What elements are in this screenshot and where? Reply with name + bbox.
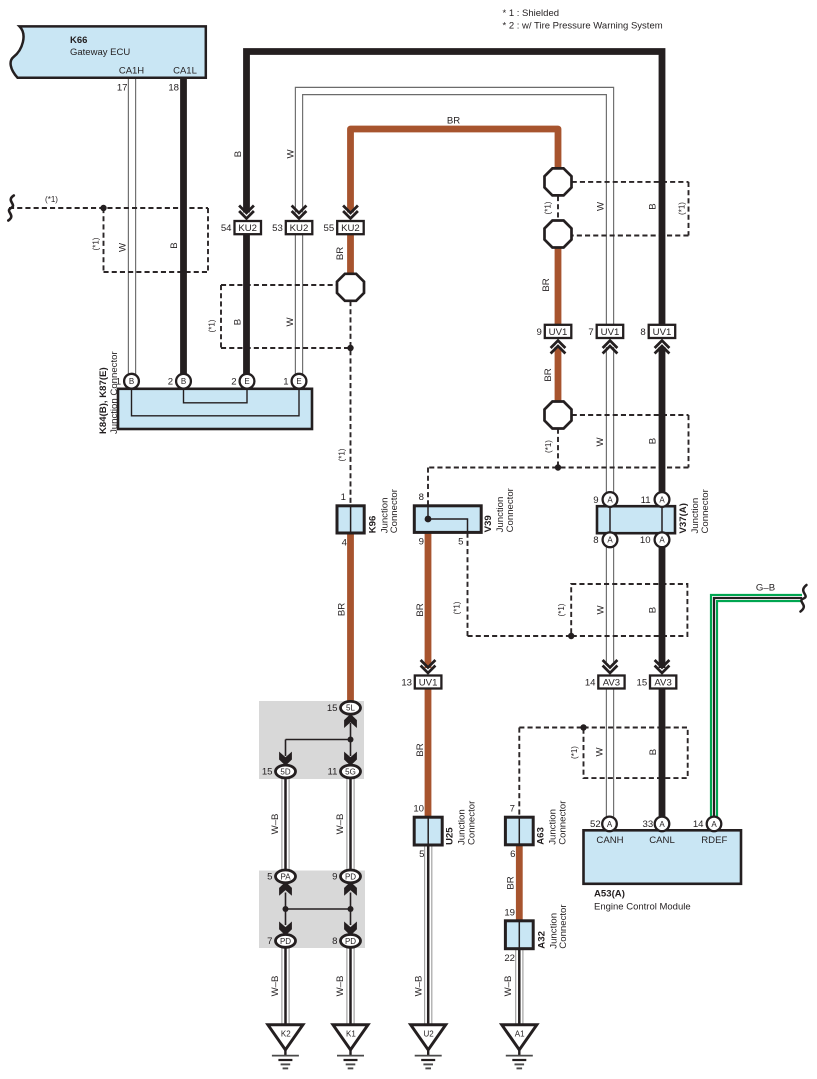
svg-text:11: 11	[328, 767, 338, 778]
wire BR (UV1 13 to U25 pin 10)	[425, 689, 432, 818]
svg-text:K66: K66	[70, 35, 87, 46]
connector U25 junction connector	[414, 817, 442, 845]
svg-text:2: 2	[231, 376, 236, 387]
svg-text:AV3: AV3	[654, 678, 671, 689]
svg-text:Connector: Connector	[505, 487, 516, 532]
svg-text:G–B: G–B	[756, 583, 775, 594]
arrow into AV3 14	[603, 660, 618, 673]
pin 10 A of V37	[655, 532, 670, 547]
pin 2 E of K84	[240, 374, 255, 389]
svg-text:KU2: KU2	[341, 223, 360, 234]
svg-text:PD: PD	[345, 937, 356, 946]
node 5G	[341, 765, 361, 778]
shield dashed box 3 right of octagons	[572, 181, 689, 183]
shield dashed box 1 around W/B to K84	[103, 208, 105, 272]
svg-text:U2: U2	[423, 1030, 434, 1039]
svg-text:W: W	[118, 242, 129, 252]
svg-text:BR: BR	[541, 278, 552, 291]
svg-text:CA1L: CA1L	[173, 66, 197, 77]
arrow into 5G	[345, 753, 356, 765]
svg-text:5G: 5G	[345, 767, 356, 776]
svg-text:(*1): (*1)	[678, 202, 687, 215]
wire W CA1H (K66 17 to K84 1B)	[128, 78, 136, 374]
svg-text:B: B	[181, 377, 186, 386]
wire W (UV1 7 to V37 pin 9)	[606, 347, 614, 492]
svg-text:19: 19	[504, 907, 515, 918]
svg-text:PD: PD	[280, 937, 291, 946]
svg-text:14: 14	[585, 678, 596, 689]
shaded option block 2 (PA/PD)	[259, 871, 365, 949]
wire BR (A63 pin 6 to A32 pin 19)	[516, 845, 523, 921]
svg-text:Connector: Connector	[558, 904, 569, 949]
svg-text:A: A	[659, 536, 665, 545]
svg-text:8: 8	[593, 535, 598, 546]
connector KU2 54	[235, 221, 262, 234]
svg-text:Connector: Connector	[700, 488, 711, 533]
connector V37(A) junction connector	[597, 506, 675, 533]
svg-text:33: 33	[643, 819, 654, 830]
svg-text:5: 5	[419, 849, 424, 860]
svg-text:V39: V39	[483, 515, 494, 532]
svg-text:8: 8	[640, 327, 645, 338]
junction dot block 2 right	[348, 906, 354, 912]
svg-text:B: B	[169, 242, 180, 248]
svg-text:(*1): (*1)	[544, 440, 553, 453]
svg-text:UV1: UV1	[549, 327, 568, 338]
svg-text:54: 54	[221, 223, 232, 234]
node 5L	[341, 701, 361, 714]
svg-text:UV1: UV1	[601, 327, 620, 338]
svg-text:6: 6	[510, 849, 515, 860]
K66 Gateway ECU box	[11, 26, 206, 77]
svg-text:K84(B), K87(E): K84(B), K87(E)	[98, 367, 109, 434]
arrow into 5L	[345, 715, 356, 727]
svg-text:BR: BR	[336, 603, 347, 616]
wire B (KU2 54 to K84 2E)	[243, 234, 250, 374]
svg-text:(*1): (*1)	[557, 603, 566, 616]
arrow into AV3 15	[655, 660, 670, 673]
svg-text:A63: A63	[536, 827, 547, 845]
shield dashed link between octagons S2-S3	[557, 196, 559, 220]
svg-text:PA: PA	[280, 872, 291, 881]
svg-text:B: B	[233, 319, 244, 325]
junction dot on shield drain	[100, 205, 106, 211]
svg-text:(*1): (*1)	[544, 201, 553, 214]
svg-text:K2: K2	[281, 1030, 291, 1039]
A53(A) Engine Control Module box	[584, 830, 742, 884]
wire B (AV3 15 to A53 pin 33 CANL)	[659, 689, 666, 817]
octagon shield S4	[545, 402, 572, 429]
svg-text:17: 17	[117, 82, 128, 93]
pin 33 A of A53	[655, 817, 670, 832]
svg-text:15: 15	[637, 678, 648, 689]
svg-text:UV1: UV1	[653, 327, 672, 338]
connector UV1 8	[649, 325, 676, 338]
shield dashed link octagon S4 down	[557, 429, 559, 468]
octagon shield S1	[337, 274, 364, 301]
svg-text:22: 22	[504, 953, 515, 964]
svg-text:RDEF: RDEF	[701, 835, 727, 846]
shaded option block 1 (5L/5D/5G)	[259, 701, 364, 779]
wire W-B (5G to PD 9)	[346, 778, 354, 871]
shield drain dashed to V39 pin 8	[427, 468, 429, 506]
node 5D	[276, 765, 296, 778]
connector K84(B) K87(E) junction connector box	[118, 389, 312, 429]
svg-text:A53(A): A53(A)	[594, 889, 625, 900]
pin 11 A of V37	[655, 492, 670, 507]
arrow into UV1 7	[603, 341, 618, 354]
svg-text:UV1: UV1	[419, 678, 438, 689]
ground K2	[268, 1025, 303, 1069]
connector A63 junction connector	[505, 817, 533, 845]
pin 1 B of K84	[124, 374, 139, 389]
shield dashed link to A63 pin 7	[519, 727, 583, 729]
svg-text:7: 7	[588, 327, 593, 338]
octagon shield S2	[545, 168, 572, 195]
svg-text:AV3: AV3	[603, 678, 620, 689]
arrow into UV1 13	[421, 660, 436, 673]
wire W-B (A32 22 to ground A1)	[515, 949, 523, 1025]
svg-text:15: 15	[262, 767, 273, 778]
svg-text:9: 9	[419, 536, 424, 547]
svg-text:KU2: KU2	[238, 223, 257, 234]
svg-text:BR: BR	[506, 876, 517, 889]
wire BR (octagon S3 to UV1 9)	[555, 247, 562, 326]
svg-text:V37(A): V37(A)	[678, 503, 689, 533]
svg-text:Connector: Connector	[557, 800, 568, 845]
svg-text:(*1): (*1)	[570, 746, 579, 759]
svg-text:A: A	[659, 820, 665, 829]
connector UV1 9	[545, 325, 572, 338]
svg-text:W–B: W–B	[335, 814, 346, 835]
arrow into KU2 55	[343, 206, 358, 219]
svg-text:Connector: Connector	[466, 800, 477, 845]
wire W-B (U25 5 to ground U2)	[424, 845, 432, 1025]
octagon shield S3	[545, 221, 572, 248]
svg-text:52: 52	[590, 819, 601, 830]
svg-text:PD: PD	[345, 872, 356, 881]
svg-text:8: 8	[332, 936, 337, 947]
svg-text:K96: K96	[368, 516, 379, 534]
svg-text:1: 1	[341, 492, 346, 503]
svg-text:A: A	[607, 820, 613, 829]
svg-text:5: 5	[458, 536, 463, 547]
svg-text:5: 5	[267, 872, 272, 883]
svg-text:CANL: CANL	[649, 835, 675, 846]
connector A32 junction connector	[505, 921, 533, 949]
svg-text:U25: U25	[445, 827, 456, 845]
connector UV1 13	[415, 676, 442, 689]
svg-text:9: 9	[332, 872, 337, 883]
junction block wiring in option block 1	[286, 723, 351, 756]
arrow into 5D	[280, 753, 291, 765]
wire BR (K96 pin 4 to 5L)	[347, 533, 354, 702]
svg-text:(*1): (*1)	[92, 237, 101, 250]
svg-text:W: W	[596, 201, 607, 211]
svg-text:W: W	[595, 747, 606, 757]
wire B (V37 pin 10 to AV3 15)	[659, 547, 666, 668]
junction dot block 1	[348, 737, 354, 743]
break symbol left (off-page shield)	[8, 196, 14, 221]
svg-text:K1: K1	[346, 1030, 356, 1039]
svg-text:18: 18	[168, 82, 179, 93]
pin 2 B of K84	[176, 374, 191, 389]
svg-text:8: 8	[419, 492, 424, 503]
pin 8 A of V37	[603, 532, 618, 547]
junction dot block 2 left	[283, 906, 289, 912]
pin 14 A of A53	[707, 817, 722, 832]
arrow into UV1 8	[655, 341, 670, 354]
node PA	[276, 870, 296, 883]
svg-text:(*1): (*1)	[208, 319, 217, 332]
wire B CA1L (K66 18 to K84 2B)	[180, 78, 187, 374]
svg-text:5L: 5L	[346, 704, 355, 713]
pin 52 A of A53	[602, 817, 617, 832]
node PD 7	[276, 935, 296, 948]
junction dot box6/drain	[580, 724, 586, 730]
svg-text:* 2 : w/ Tire Pressure Warning: * 2 : w/ Tire Pressure Warning System	[503, 21, 663, 32]
svg-text:(*1): (*1)	[338, 448, 347, 461]
shield dashed box 6 around W/B above A53	[584, 728, 688, 779]
arrow into KU2 54	[239, 206, 254, 219]
connector V39 junction connector	[414, 506, 481, 533]
svg-text:E: E	[244, 377, 249, 386]
svg-text:W: W	[285, 317, 296, 327]
wire W (AV3 14 to A53 pin 52)	[606, 689, 614, 817]
wire W loop (KU2 53 up, across, down to UV1 7)	[299, 91, 610, 326]
pin 1 E of K84	[292, 374, 307, 389]
connector UV1 7	[597, 325, 624, 338]
wire W (V37 pin 8 to AV3 14)	[606, 547, 614, 662]
svg-text:W–B: W–B	[270, 814, 281, 835]
svg-text:Junction Connector: Junction Connector	[109, 351, 120, 434]
arrow into PD 8	[345, 923, 356, 935]
shield dashed box 5 around W/B above AV3	[571, 584, 687, 636]
svg-text:4: 4	[342, 537, 348, 548]
arrow into PD 9	[345, 883, 356, 895]
svg-text:B: B	[648, 203, 659, 209]
shield drain dashed from V39 pin 5	[467, 533, 469, 636]
svg-text:E: E	[296, 377, 301, 386]
node PD 8	[341, 935, 361, 948]
connector KU2 53	[286, 221, 313, 234]
junction dot box5/drain	[568, 633, 574, 639]
connector KU2 55	[337, 221, 364, 234]
svg-text:Gateway ECU: Gateway ECU	[70, 47, 130, 58]
shield drain dashed line from break to box	[9, 207, 208, 209]
svg-text:14: 14	[693, 819, 704, 830]
connector AV3 15	[650, 676, 676, 689]
shield dashed box 4	[572, 414, 689, 416]
wire W (KU2 53 to K84 1E)	[295, 234, 303, 374]
wire BR (V39 pin 9 to UV1 13)	[425, 532, 432, 668]
svg-text:B: B	[233, 151, 244, 157]
svg-text:9: 9	[536, 327, 541, 338]
arrow into UV1 9	[551, 341, 566, 354]
svg-text:W–B: W–B	[503, 976, 514, 997]
svg-text:7: 7	[510, 804, 515, 815]
wire BR (UV1 9 to octagon S4)	[555, 347, 562, 402]
svg-text:55: 55	[324, 223, 335, 234]
svg-text:BR: BR	[415, 743, 426, 756]
svg-text:W: W	[286, 149, 297, 159]
svg-text:11: 11	[641, 495, 651, 506]
svg-text:10: 10	[640, 535, 651, 546]
arrow into PA	[280, 883, 291, 895]
svg-text:W–B: W–B	[270, 976, 281, 997]
svg-text:1: 1	[283, 376, 288, 387]
wire BR (KU2 55 to octagon S1)	[347, 234, 354, 274]
svg-text:Engine Control Module: Engine Control Module	[594, 902, 691, 913]
wire W-B (5D to PA)	[281, 778, 289, 871]
svg-text:W–B: W–B	[335, 976, 346, 997]
break symbol right (G-B off-page)	[801, 585, 807, 612]
svg-text:(*1): (*1)	[45, 195, 58, 204]
svg-text:53: 53	[272, 223, 283, 234]
svg-text:B: B	[648, 607, 659, 613]
junction dot box2/drain	[347, 345, 353, 351]
svg-text:A: A	[607, 495, 613, 504]
svg-text:A1: A1	[515, 1030, 525, 1039]
svg-text:B: B	[129, 377, 134, 386]
shield drain dashed (octagon S1 to K96 pin 1)	[350, 301, 352, 506]
junction dot box4/drain	[555, 464, 561, 470]
svg-text:* 1 : Shielded: * 1 : Shielded	[503, 8, 560, 19]
svg-text:Connector: Connector	[389, 488, 400, 533]
svg-text:B: B	[648, 438, 659, 444]
pin 9 A of V37	[603, 492, 618, 507]
wire BR (KU2 55 up, across, down to octagon S2)	[351, 129, 559, 213]
svg-text:BR: BR	[543, 368, 554, 381]
svg-text:15: 15	[327, 703, 338, 714]
ground A1	[502, 1025, 537, 1069]
svg-text:BR: BR	[335, 247, 346, 260]
wire G-B (RDEF to off-page break)	[714, 598, 802, 817]
ground U2	[411, 1025, 446, 1069]
svg-text:CA1H: CA1H	[119, 66, 144, 77]
connector AV3 14	[598, 676, 624, 689]
svg-text:1: 1	[116, 376, 121, 387]
junction block wiring in option block 2	[286, 893, 351, 926]
svg-text:A32: A32	[536, 931, 547, 949]
svg-text:(*1): (*1)	[453, 601, 462, 614]
arrow into PD 7	[280, 923, 291, 935]
svg-text:BR: BR	[415, 603, 426, 616]
svg-text:A: A	[607, 536, 613, 545]
arrow into KU2 53	[292, 206, 307, 219]
svg-text:B: B	[648, 749, 659, 755]
connector K96 junction connector	[337, 506, 364, 533]
svg-text:2: 2	[168, 376, 173, 387]
svg-text:9: 9	[593, 495, 598, 506]
svg-text:7: 7	[267, 936, 272, 947]
wire W-B (PD 7 to ground K2)	[281, 947, 289, 1025]
svg-text:BR: BR	[447, 116, 460, 127]
svg-text:CANH: CANH	[596, 835, 623, 846]
svg-text:10: 10	[413, 804, 424, 815]
svg-text:W: W	[596, 605, 607, 615]
wire B (UV1 8 to V37 pin 11)	[659, 347, 666, 492]
svg-text:13: 13	[401, 678, 412, 689]
svg-text:A: A	[659, 495, 665, 504]
svg-text:KU2: KU2	[290, 223, 309, 234]
svg-text:A: A	[711, 820, 717, 829]
svg-text:W: W	[595, 437, 606, 447]
ground K1	[333, 1025, 368, 1069]
svg-text:W–B: W–B	[414, 976, 425, 997]
node PD 9	[341, 870, 361, 883]
svg-text:5D: 5D	[280, 767, 290, 776]
shield dashed box 2 around B/W to K84	[221, 284, 337, 286]
wire B loop (KU2 54 up, across, down to UV1 8)	[247, 52, 663, 327]
wire W-B (PD 8 to ground K1)	[346, 947, 354, 1025]
